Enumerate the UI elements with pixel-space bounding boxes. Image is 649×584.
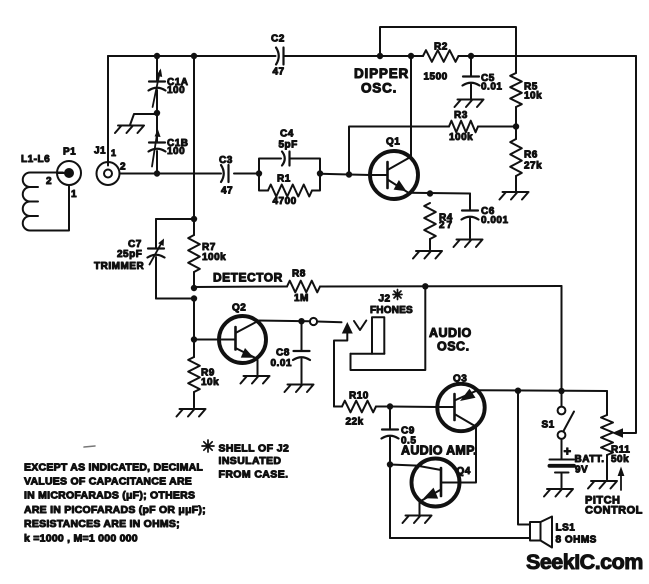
wire C8 top <box>301 321 303 351</box>
label J1 <box>94 146 106 157</box>
wire R7 node down to Q2 base <box>193 299 195 340</box>
capacitor C4 <box>282 152 290 166</box>
resistor R10 <box>342 401 376 413</box>
resistor R3 <box>449 121 478 133</box>
note shell line2 <box>219 455 282 467</box>
battery BATT <box>550 460 575 473</box>
node speaker branch junction <box>515 388 521 394</box>
wire top rail middle <box>285 55 424 57</box>
capacitor C1B <box>149 129 166 167</box>
label C7 value <box>117 249 142 260</box>
phone jack J2 spring contact <box>354 321 366 331</box>
svg-text:8 OHMS: 8 OHMS <box>556 535 597 546</box>
wire Q1 collector up <box>410 56 412 158</box>
label R1 <box>277 174 291 185</box>
wire C1 mid to ground arm <box>130 114 157 125</box>
wire R7 to detector node <box>193 272 195 288</box>
svg-text:AUDIO AMP.: AUDIO AMP. <box>401 444 477 458</box>
label C9 value <box>401 436 416 447</box>
svg-text:DIPPER: DIPPER <box>354 66 409 81</box>
watermark SeekIC.com <box>526 550 643 574</box>
wire rail down to detector <box>193 56 195 219</box>
svg-text:+: + <box>564 444 572 459</box>
label C5 <box>481 73 495 84</box>
label C4 value <box>279 140 298 151</box>
label R1 value <box>273 196 297 207</box>
wire R10 leads <box>334 406 390 408</box>
transistor Q1 <box>370 151 418 199</box>
node R10 C9 junction <box>387 403 393 409</box>
wire S1 to battery <box>561 439 563 459</box>
wire top rail left <box>108 55 276 57</box>
pot R11 wiper arrow <box>612 428 623 437</box>
label C6 value <box>481 215 509 226</box>
label R11 value <box>611 454 629 465</box>
wire C3 to R1 box <box>234 173 259 175</box>
transistor Q3 <box>437 384 484 431</box>
label R6 value <box>524 161 542 172</box>
wire right rail to R11 wiper <box>622 56 636 433</box>
svg-text:FHONES: FHONES <box>370 305 413 316</box>
trimmer capacitor C7 <box>148 239 165 265</box>
label AUDIO OSC line1 <box>429 326 472 340</box>
svg-text:EXCEPT AS INDICATED, DECIMAL: EXCEPT AS INDICATED, DECIMAL <box>24 461 203 473</box>
svg-text:k =1000 , M=1 000 000: k =1000 , M=1 000 000 <box>24 532 138 544</box>
wire S1 top lead <box>561 391 563 407</box>
svg-text:4700: 4700 <box>273 196 297 207</box>
wire C1B to J1 line <box>156 151 158 174</box>
ground C8 <box>285 385 314 393</box>
node C7 loop bottom junction <box>191 295 197 301</box>
capacitor C9 <box>382 430 399 439</box>
svg-text:R10: R10 <box>349 391 369 402</box>
label R7 <box>202 242 216 253</box>
svg-text:ARE IN PICOFARADS (pF OR μμF);: ARE IN PICOFARADS (pF OR μμF); <box>24 504 206 516</box>
svg-text:100: 100 <box>167 85 185 96</box>
svg-text:LS1: LS1 <box>556 523 576 534</box>
resistor R7 <box>188 235 200 272</box>
node J1 wire C1 junction <box>154 170 160 176</box>
jack J1 <box>97 162 120 185</box>
wire Q2 collector to jack <box>257 320 311 323</box>
label 9V <box>575 465 588 476</box>
label C1A <box>167 77 189 88</box>
wire base node to Q2 <box>194 339 219 341</box>
wire battery to ground <box>561 473 563 488</box>
jack tie point <box>310 318 317 325</box>
node C9 Q4 junction <box>387 461 393 467</box>
node Q2 base junction <box>191 336 197 342</box>
node emitter R4 junction <box>427 190 433 196</box>
ground R6 <box>500 192 529 200</box>
label R11 <box>611 445 630 456</box>
label R5 value <box>524 91 542 102</box>
label R6 <box>524 150 538 161</box>
wire bottom rail to speaker <box>390 537 530 539</box>
svg-text:22k: 22k <box>346 417 364 428</box>
note shell asterisk <box>202 440 214 452</box>
wire R4 to ground <box>429 239 431 250</box>
label PITCH <box>585 495 621 507</box>
svg-text:OSC.: OSC. <box>437 340 470 354</box>
wire C5 top <box>470 56 472 77</box>
svg-text:RESISTANCES ARE IN OHMS;: RESISTANCES ARE IN OHMS; <box>24 518 180 530</box>
label DIPPER OSC line2 <box>361 81 397 96</box>
wire Q2 base node to R9 <box>193 340 195 358</box>
svg-text:Q2: Q2 <box>232 303 246 314</box>
wire R11 to ground <box>606 455 608 480</box>
label BATT <box>575 454 605 465</box>
phone jack J2 tip arrow <box>342 322 353 334</box>
wire C7 loop bottom <box>156 298 194 300</box>
wire R6 to ground <box>515 176 517 191</box>
label C3 <box>219 155 233 166</box>
label J2 asterisk <box>393 290 402 300</box>
svg-text:1: 1 <box>71 189 77 200</box>
wire R6 top <box>515 127 517 140</box>
label DETECTOR <box>213 271 283 285</box>
wire R7 top lead <box>193 219 195 235</box>
svg-text:47: 47 <box>273 67 285 78</box>
capacitor C2 <box>276 48 284 65</box>
ground C6 <box>454 240 483 248</box>
wire Q3 emitter rail <box>478 389 608 392</box>
resistor R8 <box>287 281 320 293</box>
resistor R9 <box>188 357 200 392</box>
wire R9 to ground <box>193 392 195 408</box>
wire C7 bottom <box>155 257 157 299</box>
wire C1 chain top <box>156 56 158 82</box>
svg-text:R2: R2 <box>434 42 448 53</box>
capacitor C5 <box>463 77 480 86</box>
svg-text:SHELL OF J2: SHELL OF J2 <box>219 443 290 455</box>
label C4 <box>280 129 294 140</box>
wire C9 top <box>389 407 391 430</box>
svg-text:Q1: Q1 <box>386 137 400 148</box>
capacitor C6 <box>462 211 479 220</box>
node rail-C5 junction <box>468 53 474 59</box>
note values line4 <box>24 504 206 516</box>
label C1B value <box>167 146 185 157</box>
wire C1A to C1B <box>156 90 158 143</box>
label L1-L6 <box>21 154 50 165</box>
label Q2 <box>232 303 246 314</box>
wire to C6 <box>469 194 471 211</box>
svg-text:27: 27 <box>439 220 454 231</box>
svg-text:C2: C2 <box>271 34 285 45</box>
ground Q4 <box>403 516 432 524</box>
label C1A value <box>167 85 185 96</box>
svg-text:R1: R1 <box>277 174 291 185</box>
phone jack J2 plug <box>351 317 385 354</box>
wire R11 top lead <box>606 391 608 415</box>
svg-text:R6: R6 <box>524 150 538 161</box>
wire Q1 emitter rail <box>408 192 470 195</box>
svg-text:0.01: 0.01 <box>481 82 502 93</box>
resistor R6 <box>510 139 522 176</box>
svg-text:IN MICROFARADS (μF); OTHERS: IN MICROFARADS (μF); OTHERS <box>24 490 195 502</box>
coil L1-L6 <box>23 173 69 231</box>
label J2 <box>379 294 391 305</box>
svg-text:R8: R8 <box>292 269 306 280</box>
label J1 pin2 <box>120 162 126 173</box>
label R4 <box>439 213 453 224</box>
wire top rail right <box>459 55 637 57</box>
svg-text:FROM CASE.: FROM CASE. <box>219 469 289 481</box>
wire Q4 emitter to ground <box>419 502 421 515</box>
label C8 <box>276 348 290 359</box>
wire R5 bottom <box>515 107 517 127</box>
label DIPPER OSC line1 <box>354 66 409 81</box>
svg-text:INSULATED: INSULATED <box>219 455 282 467</box>
svg-text:1: 1 <box>111 148 117 158</box>
label C9 <box>401 426 415 437</box>
svg-text:1500: 1500 <box>424 72 448 83</box>
svg-text:9V: 9V <box>575 465 588 476</box>
wire Q3 collector to Q4 base <box>459 426 476 482</box>
svg-text:0.01: 0.01 <box>271 358 292 369</box>
label AUDIO OSC line2 <box>437 340 470 354</box>
label AUDIO AMP <box>401 444 477 458</box>
label C1B <box>167 138 189 149</box>
wire C9 to bottom rail <box>389 438 391 539</box>
node Q1 base junction <box>346 171 352 177</box>
svg-text:L1-L6: L1-L6 <box>21 154 50 165</box>
note values line3 <box>24 490 195 502</box>
label R4 value <box>439 220 454 231</box>
svg-text:Q4: Q4 <box>457 466 471 477</box>
svg-text:100: 100 <box>167 146 185 157</box>
svg-text:25pF: 25pF <box>117 249 142 260</box>
node R8 jack junction <box>422 283 428 289</box>
svg-text:J1: J1 <box>94 146 106 157</box>
label C2 <box>271 34 285 45</box>
note values line6 <box>24 532 138 544</box>
label C5 value <box>481 82 502 93</box>
ground battery <box>544 489 573 497</box>
svg-text:C4: C4 <box>280 129 294 140</box>
switch S1 <box>558 407 574 439</box>
svg-text:R3: R3 <box>454 110 468 121</box>
node rail-R7 junction <box>191 53 197 59</box>
node S1 branch junction <box>558 388 564 394</box>
node rail-loop junction <box>377 53 383 59</box>
svg-text:SeekIC.com: SeekIC.com <box>526 550 643 574</box>
wire C6 to ground <box>469 219 471 239</box>
note values line5 <box>24 518 180 530</box>
node detector junction <box>191 285 197 291</box>
resistor R5 <box>510 73 522 107</box>
wire C7 top <box>155 219 157 249</box>
svg-text:2: 2 <box>46 176 52 187</box>
svg-text:AUDIO: AUDIO <box>429 326 472 340</box>
resistor R2 <box>423 50 458 62</box>
svg-text:2: 2 <box>120 162 126 173</box>
ground C1 mid <box>115 126 144 134</box>
label P1 pin2 <box>46 176 52 187</box>
label R5 <box>524 82 538 93</box>
transistor Q2 <box>219 316 266 363</box>
label R10 value <box>346 417 364 428</box>
node C1 midpoint <box>154 110 160 116</box>
resistor R1 zigzag <box>268 185 312 197</box>
label P1 pin1 <box>71 189 77 200</box>
svg-text:S1: S1 <box>542 420 555 431</box>
stray scan mark <box>84 446 95 447</box>
svg-text:Q3: Q3 <box>453 374 467 385</box>
wire J1 pin1 to top rail <box>107 56 109 166</box>
svg-text:5pF: 5pF <box>279 140 298 151</box>
wire audio osc right drop <box>561 286 563 392</box>
transistor Q4 <box>412 459 460 507</box>
svg-text:10k: 10k <box>201 377 219 388</box>
node rail-C1 junction <box>154 53 160 59</box>
wire C8 to ground <box>301 359 303 383</box>
node R5 R6 R3 junction <box>513 123 519 129</box>
wire R3 to R5/R6 node <box>478 126 516 128</box>
note shell line1 <box>219 443 290 455</box>
wire jack tip contact arm <box>334 333 347 407</box>
wire jack frame <box>351 286 426 370</box>
label R7 value <box>202 252 226 263</box>
ground R11 <box>588 481 617 489</box>
ground Q2 emitter <box>241 376 270 384</box>
capacitor C1A <box>149 69 166 108</box>
svg-text:100k: 100k <box>202 252 226 263</box>
wire Q1 base node up to R3 <box>349 127 449 175</box>
label R8 value <box>294 293 309 304</box>
svg-text:C8: C8 <box>276 348 290 359</box>
label R2 <box>434 42 448 53</box>
wire top feedback loop <box>380 27 516 73</box>
svg-text:100k: 100k <box>449 132 473 143</box>
label Q4 <box>457 466 471 477</box>
ground R4 <box>413 251 442 259</box>
wire speaker top lead <box>518 391 530 525</box>
label battery plus <box>564 444 572 459</box>
note shell line3 <box>219 469 289 481</box>
resistor R1 box with C4 <box>259 159 320 191</box>
plug P1 <box>57 161 81 185</box>
label C7 trimmer <box>94 261 144 272</box>
svg-text:VALUES OF CAPACITANCE ARE: VALUES OF CAPACITANCE ARE <box>24 476 192 488</box>
svg-text:BATT.: BATT. <box>575 454 605 465</box>
svg-text:1M: 1M <box>294 293 309 304</box>
label Q1 <box>386 137 400 148</box>
svg-text:OSC.: OSC. <box>361 81 397 96</box>
capacitor C8 <box>293 351 310 360</box>
node R1 box left <box>256 170 262 176</box>
wire R10 node to Q3 base <box>390 406 438 409</box>
label R3 <box>454 110 468 121</box>
svg-text:DETECTOR: DETECTOR <box>213 271 283 285</box>
svg-text:J2: J2 <box>379 294 391 305</box>
wire C9 node to Q4 collector <box>390 465 418 466</box>
label R8 <box>292 269 306 280</box>
label J2 phones <box>370 305 413 316</box>
wire base node to Q1 <box>349 174 371 177</box>
ground C5 <box>455 100 484 108</box>
label C2 value <box>273 67 285 78</box>
wire R1 box to Q1 base node <box>320 173 349 176</box>
label LS1 <box>556 523 576 534</box>
note values line2 <box>24 476 192 488</box>
wire Q2 emitter drop <box>256 359 258 375</box>
capacitor C3 <box>221 165 229 182</box>
label R3 value <box>449 132 473 143</box>
potentiometer R11 <box>601 415 613 455</box>
wire J1 to C3 <box>120 173 222 175</box>
wire detector to R8 <box>194 286 287 289</box>
label R9 value <box>201 377 219 388</box>
node R1 box right <box>317 170 323 176</box>
note values line1 <box>24 461 203 473</box>
wire tie point to jack tip <box>317 321 342 324</box>
label P1 <box>63 147 76 158</box>
node rail-Q1 collector junction <box>408 53 414 59</box>
label CONTROL <box>585 505 643 517</box>
label C8 value <box>271 358 292 369</box>
node C8 junction <box>298 318 304 324</box>
pitch control arrow <box>618 467 625 491</box>
node C7 R7 top junction <box>191 216 197 222</box>
label C6 <box>481 206 495 217</box>
svg-text:CONTROL: CONTROL <box>585 505 643 517</box>
label J1 pin1 <box>111 148 117 158</box>
label LS1 value <box>556 535 597 546</box>
speaker LS1 <box>530 517 552 548</box>
svg-text:50k: 50k <box>611 454 629 465</box>
ground R9 <box>177 409 206 417</box>
label S1 <box>542 420 555 431</box>
label C3 value <box>221 186 233 197</box>
svg-text:TRIMMER: TRIMMER <box>94 261 144 272</box>
svg-text:C3: C3 <box>219 155 233 166</box>
wire R8 to audio osc node <box>320 285 562 288</box>
svg-text:P1: P1 <box>63 147 76 158</box>
label Q3 <box>453 374 467 385</box>
svg-text:47: 47 <box>221 186 233 197</box>
label R2 value <box>424 72 448 83</box>
label C7 <box>128 239 142 250</box>
svg-text:0.001: 0.001 <box>481 215 509 226</box>
wire C5 to ground <box>470 85 472 99</box>
label R9 <box>201 368 215 379</box>
wire C7 loop top <box>156 218 194 220</box>
resistor R4 <box>424 203 436 239</box>
label R10 <box>349 391 369 402</box>
svg-text:27k: 27k <box>524 161 542 172</box>
svg-text:10k: 10k <box>524 91 542 102</box>
